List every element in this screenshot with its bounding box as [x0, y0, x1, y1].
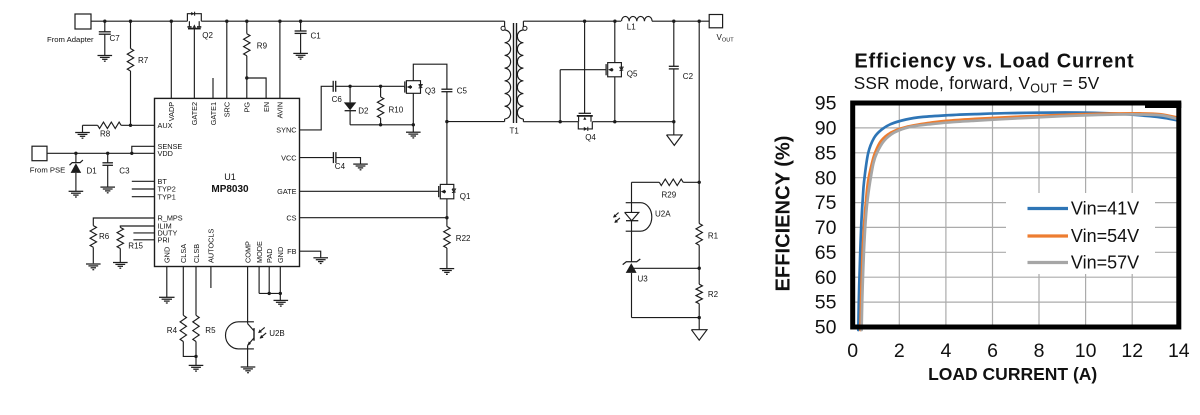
wire TYP2 stub	[132, 188, 155, 190]
transistor Q1	[439, 184, 471, 201]
capacitor C1	[295, 20, 322, 54]
output terminal VOUT	[709, 15, 734, 44]
svg-text:Vin=54V: Vin=54V	[1071, 226, 1139, 246]
svg-text:D2: D2	[358, 107, 369, 116]
diode D1 TVS	[70, 152, 98, 191]
wire CS	[300, 217, 447, 219]
svg-text:SSR mode, forward, VOUT = 5V: SSR mode, forward, VOUT = 5V	[854, 73, 1100, 96]
resistor R15	[117, 226, 154, 262]
svg-text:R2: R2	[708, 290, 719, 299]
resistor R10	[377, 85, 403, 127]
svg-text:From PSE: From PSE	[30, 166, 65, 175]
svg-text:PG: PG	[243, 102, 252, 113]
svg-text:Vin=41V: Vin=41V	[1071, 199, 1139, 219]
chart legend	[1006, 193, 1155, 274]
svg-text:12: 12	[1121, 340, 1143, 362]
wire COMP	[247, 267, 249, 324]
pin labels bottom row	[163, 229, 286, 263]
ground R8	[75, 125, 90, 138]
wire FB	[300, 251, 321, 257]
wire SENSE jog	[130, 146, 154, 155]
capacitor C4	[300, 152, 361, 171]
svg-text:60: 60	[815, 267, 837, 289]
transistor Q3	[404, 81, 436, 96]
pin labels right column	[276, 126, 296, 256]
svg-text:R29: R29	[662, 191, 677, 200]
svg-text:R9: R9	[257, 42, 268, 51]
svg-text:FB: FB	[287, 247, 296, 256]
diode D2	[344, 85, 369, 125]
wire AUTOCLS stub	[210, 267, 212, 289]
wire TYP1 stub	[132, 196, 155, 198]
svg-text:55: 55	[815, 292, 837, 314]
op-amp U1 MP8030 controller box	[155, 98, 300, 266]
wire out rail bottom	[523, 121, 673, 123]
svg-text:GATE2: GATE2	[190, 102, 199, 125]
wire C5 to primary	[445, 92, 504, 124]
wire U3 bottom	[632, 317, 700, 319]
svg-text:R6: R6	[99, 232, 110, 241]
transformer T1 phase dots	[501, 26, 527, 30]
svg-text:2: 2	[894, 340, 905, 362]
svg-text:U3: U3	[638, 275, 649, 284]
chart curve Vin=41V blue	[858, 113, 1179, 331]
wire out rail after L1	[652, 20, 709, 22]
chart y-axis title	[773, 136, 795, 292]
chart subtitle	[854, 73, 1100, 96]
svg-text:50: 50	[815, 317, 837, 339]
wire Q4 gate line	[583, 20, 586, 114]
wire VDD	[47, 152, 155, 154]
diode U2A optocoupler LED	[613, 182, 671, 261]
ground R15	[113, 263, 128, 269]
svg-text:Q5: Q5	[627, 70, 638, 79]
ground C2 triangle	[667, 135, 683, 146]
svg-text:70: 70	[815, 217, 837, 239]
wire PRI stub	[133, 239, 154, 241]
svg-text:Vin=57V: Vin=57V	[1071, 253, 1139, 273]
node PG-EN junction	[245, 76, 248, 98]
resistor R2	[696, 268, 719, 317]
svg-text:95: 95	[815, 93, 837, 115]
svg-text:PAD: PAD	[265, 249, 274, 263]
svg-text:C3: C3	[119, 167, 130, 176]
resistor R6	[90, 218, 154, 263]
resistor R1	[696, 182, 719, 268]
capacitor C6	[332, 81, 343, 104]
node AUX junction	[129, 124, 132, 127]
svg-text:C4: C4	[335, 162, 346, 171]
svg-text:U2A: U2A	[655, 210, 671, 219]
svg-text:VDD: VDD	[158, 149, 173, 158]
svg-text:Q4: Q4	[585, 133, 596, 142]
node R1 R2 junction	[698, 267, 701, 270]
transistor Q5	[606, 63, 638, 79]
ground C7	[98, 56, 113, 62]
ground GND pin	[159, 267, 174, 304]
svg-text:Q1: Q1	[460, 192, 471, 201]
wire VADP	[170, 20, 173, 99]
wire EN	[247, 78, 266, 98]
ground FB	[313, 258, 328, 264]
svg-text:14: 14	[1168, 340, 1190, 362]
svg-text:65: 65	[815, 242, 837, 264]
transistor Q2	[187, 12, 213, 40]
capacitor C7	[99, 20, 120, 56]
resistor R22	[444, 199, 471, 268]
wire Q3 source	[412, 93, 415, 132]
capacitor C5	[441, 87, 467, 96]
wire Q5 gate run	[559, 70, 606, 124]
resistor R29	[632, 179, 700, 199]
chart border step top right	[1145, 103, 1181, 109]
wire U3 ref	[633, 267, 699, 269]
wire D2 R10 bottom	[350, 124, 413, 126]
svg-text:75: 75	[815, 192, 837, 214]
svg-text:VCC: VCC	[281, 153, 296, 162]
resistor R7	[127, 20, 148, 126]
transformer T1 primary winding	[505, 21, 511, 121]
svg-text:GATE1: GATE1	[209, 102, 218, 125]
svg-text:6: 6	[987, 340, 998, 362]
svg-text:C2: C2	[683, 72, 694, 81]
svg-text:CS: CS	[286, 213, 296, 222]
pin labels left column	[158, 121, 183, 245]
wire DUTY stub	[133, 232, 154, 234]
chart curve Vin=57V grey	[862, 114, 1179, 330]
wire SYNC	[300, 86, 334, 130]
capacitor C3	[102, 152, 130, 187]
ground D1	[69, 191, 84, 197]
svg-text:SYNC: SYNC	[276, 126, 296, 135]
svg-text:VADP: VADP	[167, 102, 176, 121]
diode U3 shunt regulator	[623, 259, 649, 318]
transformer T1 core	[514, 23, 517, 123]
resistor R8	[83, 122, 155, 138]
svg-text:C5: C5	[457, 87, 468, 96]
svg-text:From Adapter: From Adapter	[47, 35, 94, 44]
chart curve Vin=54V orange	[860, 113, 1178, 330]
wire Q3 drain to C5	[413, 64, 447, 89]
svg-text:GND: GND	[163, 247, 172, 263]
ground C3	[100, 187, 115, 193]
inductor L1	[622, 16, 653, 31]
wire BT stub	[132, 180, 155, 182]
ground C4	[353, 164, 368, 170]
svg-text:8: 8	[1034, 340, 1045, 362]
chart x tick labels	[847, 340, 1190, 362]
svg-text:CLSB: CLSB	[192, 244, 201, 263]
svg-text:EN: EN	[262, 102, 271, 112]
chart plot border	[853, 103, 1179, 327]
wire GND2	[279, 267, 282, 301]
svg-text:L1: L1	[627, 23, 636, 32]
svg-text:D1: D1	[87, 167, 98, 176]
svg-text:4: 4	[940, 340, 951, 362]
wire Q5 source	[613, 77, 616, 124]
transformer T1 secondary winding	[517, 21, 523, 122]
wire GATE	[300, 190, 439, 192]
ground R22	[440, 269, 455, 275]
svg-text:R5: R5	[205, 326, 216, 335]
wire C6 to Q3 gate	[336, 85, 404, 87]
svg-text:U2B: U2B	[269, 329, 285, 338]
chart y tick labels	[815, 93, 837, 339]
svg-text:C7: C7	[110, 34, 121, 43]
svg-text:R10: R10	[389, 106, 404, 115]
svg-text:0: 0	[847, 340, 858, 362]
chart x-axis title	[928, 364, 1097, 384]
svg-text:TYP1: TYP1	[158, 192, 176, 201]
svg-text:C1: C1	[311, 32, 322, 41]
svg-text:80: 80	[815, 167, 837, 189]
svg-text:PRI: PRI	[158, 236, 170, 245]
chart gridlines	[853, 103, 1179, 327]
svg-text:U1: U1	[224, 172, 236, 182]
svg-text:R15: R15	[128, 241, 143, 250]
svg-text:LOAD CURRENT (A): LOAD CURRENT (A)	[928, 364, 1097, 384]
transistor U2B optocoupler output	[226, 322, 285, 367]
svg-text:MODE: MODE	[255, 241, 264, 263]
svg-text:GATE: GATE	[277, 187, 296, 196]
svg-text:Efficiency vs. Load Current: Efficiency vs. Load Current	[854, 51, 1134, 73]
wire top rail left	[91, 20, 187, 22]
wire GATE2	[193, 29, 195, 99]
svg-text:R8: R8	[100, 130, 111, 139]
wire SRC	[225, 20, 228, 99]
wire Q1 drain	[446, 122, 448, 185]
svg-text:AVIN: AVIN	[276, 102, 285, 119]
svg-text:AUTOCLS: AUTOCLS	[207, 229, 216, 263]
ground R6	[86, 264, 101, 270]
wire MODE	[259, 267, 280, 294]
svg-text:COMP: COMP	[243, 241, 252, 263]
wire GATE1	[212, 78, 214, 98]
ground Q3 source	[406, 132, 421, 138]
input terminal From PSE	[30, 146, 65, 174]
svg-text:SRC: SRC	[223, 102, 232, 117]
node R29 junction	[698, 181, 701, 184]
svg-text:MP8030: MP8030	[211, 184, 249, 195]
transformer T1 label	[510, 127, 520, 136]
node R2 bottom junction	[698, 316, 701, 330]
resistor R9	[244, 20, 268, 79]
pin labels top row	[167, 102, 285, 126]
svg-text:R4: R4	[167, 326, 178, 335]
wire out rail top	[523, 20, 621, 22]
ground R4 R5	[189, 365, 204, 371]
svg-text:T1: T1	[510, 127, 520, 136]
ground divider triangle	[691, 330, 707, 341]
wire Q5 drain	[613, 20, 616, 63]
svg-text:Q3: Q3	[425, 87, 436, 96]
svg-text:C6: C6	[332, 95, 343, 104]
resistor R5	[193, 267, 216, 366]
input terminal From Adapter	[47, 14, 94, 44]
svg-text:Q2: Q2	[202, 31, 213, 40]
transistor Q4	[577, 113, 597, 142]
ground C1	[293, 53, 308, 59]
svg-text:EFFICIENCY (%): EFFICIENCY (%)	[773, 136, 795, 292]
wire PAD	[268, 267, 271, 296]
svg-text:R22: R22	[456, 234, 471, 243]
chart title	[854, 51, 1134, 73]
svg-text:85: 85	[815, 142, 837, 164]
svg-text:10: 10	[1075, 340, 1097, 362]
svg-text:R1: R1	[708, 232, 719, 241]
wire feedback vertical	[698, 20, 701, 183]
wire top rail mid	[201, 20, 504, 22]
wire AVIN	[278, 20, 281, 99]
svg-text:CLSA: CLSA	[179, 244, 188, 263]
svg-text:R7: R7	[138, 56, 149, 65]
svg-text:90: 90	[815, 118, 837, 140]
svg-text:AUX: AUX	[158, 121, 173, 130]
capacitor C2	[669, 20, 694, 135]
ground MODE PAD GND	[274, 300, 289, 306]
svg-text:GND: GND	[276, 247, 285, 263]
resistor R4	[167, 267, 196, 357]
ground U2B	[241, 367, 256, 373]
